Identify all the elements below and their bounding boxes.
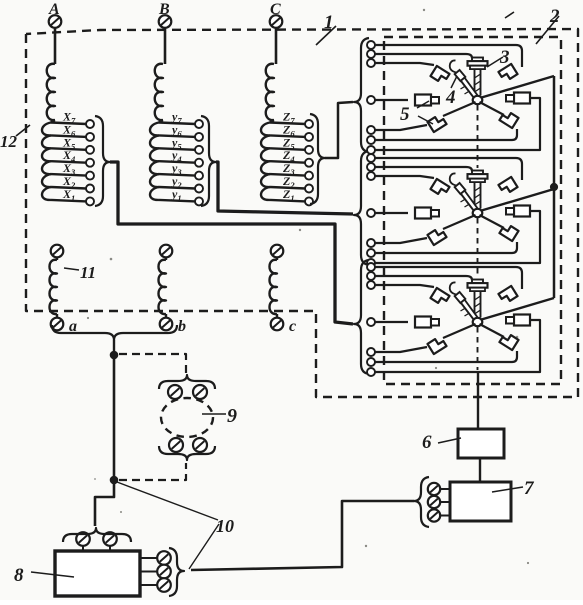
wire phase C taps to selector unit 1 bbox=[325, 102, 353, 158]
wire unit 1 tap 1 to upper-right contact bbox=[375, 45, 522, 67]
wire unit 2 tap 3 to upper-left contact bbox=[375, 176, 434, 178]
label 1 bbox=[324, 12, 334, 33]
terminal C screw symbol bbox=[270, 15, 283, 28]
svg-text:10: 10 bbox=[216, 516, 234, 536]
motor 9 dashed circle bbox=[161, 398, 213, 437]
dashed enclosure box 2 (tap selector compartment) outline bbox=[384, 37, 561, 384]
svg-text:2: 2 bbox=[549, 6, 560, 27]
wire unit 2 pivot to lower-left contact bbox=[443, 215, 476, 229]
neutral bus vertical bbox=[553, 76, 556, 298]
winding A plain section bbox=[47, 64, 55, 120]
junction node lower bbox=[110, 476, 118, 484]
terminal B screw symbol bbox=[159, 15, 172, 28]
fixed contact unit 1 upper-left bbox=[430, 66, 449, 84]
label 12 bbox=[0, 132, 18, 151]
wire unit 2 tap 5 to lower-left contact bbox=[375, 238, 427, 243]
terminal b label bbox=[178, 318, 186, 335]
winding B tap terminals bbox=[195, 120, 203, 205]
svg-text:11: 11 bbox=[80, 263, 96, 282]
label 1 leader slash bbox=[316, 26, 336, 45]
selector unit 3 pivot contact bbox=[473, 318, 483, 326]
connector brace under terminals a-b bbox=[52, 325, 177, 340]
fixed contact unit 3 lower-right bbox=[499, 332, 518, 350]
wire unit 3 tap 1 to upper-right contact bbox=[375, 267, 522, 289]
label 11 bbox=[80, 263, 96, 282]
dashed wire lower junction to motor bbox=[119, 463, 186, 480]
label 2 bbox=[549, 6, 560, 27]
wire unit 1 pivot to lower-right contact bbox=[480, 102, 505, 115]
wire unit 2 tap 2 to reversing switch stem bbox=[375, 167, 472, 171]
label 8 leader bbox=[31, 572, 74, 577]
fixed contact unit 3 upper-left bbox=[430, 288, 449, 306]
svg-text:1: 1 bbox=[324, 12, 334, 33]
dashed enclosure box 1 (transformer tank) outline bbox=[26, 29, 578, 397]
svg-text:7: 7 bbox=[524, 478, 535, 499]
selector unit 1 pivot contact bbox=[473, 96, 483, 104]
fixed contact unit 2 upper-right bbox=[498, 177, 517, 195]
winding C tapped section bbox=[261, 120, 306, 201]
brace below motor terminals bbox=[159, 446, 215, 460]
control box 7 bbox=[450, 482, 511, 521]
brace phase A tap group bbox=[95, 116, 110, 206]
brace above box 8 terminals bbox=[63, 528, 131, 542]
brace selector unit 1 input group bbox=[354, 38, 369, 152]
wire unit 3 pivot to lower-left contact bbox=[443, 324, 476, 338]
wire unit 3 tap 7 to mid-right contact bbox=[375, 320, 540, 372]
wire unit 2 tap 4 to mid-left contact bbox=[375, 212, 408, 214]
stray scan tick bbox=[505, 12, 514, 18]
fixed contact unit 1 lower-left bbox=[427, 114, 446, 132]
label 9 leader bbox=[202, 413, 226, 415]
wire unit 3 tap 5 to lower-left contact bbox=[375, 347, 427, 352]
wire unit 2 tap 6 to lower-right contact bbox=[375, 242, 517, 253]
wire unit 2 pivot to lower-right contact bbox=[480, 215, 505, 228]
fixed contact unit 3 mid-right bbox=[506, 315, 530, 326]
wire unit 1 pivot to neutral bus bbox=[482, 76, 555, 98]
label 5 leaders bbox=[417, 101, 433, 124]
selector unit 1 tap input contacts bbox=[367, 41, 375, 154]
junction node upper bbox=[110, 351, 118, 359]
label 10 leader to lower junction bbox=[117, 482, 218, 520]
label 4 leader bbox=[451, 76, 457, 88]
fixed contact unit 1 upper-right bbox=[498, 64, 517, 82]
label 7 leader bbox=[492, 487, 523, 492]
svg-text:c: c bbox=[289, 318, 296, 335]
label 5 bbox=[400, 104, 410, 125]
fixed contact unit 2 upper-left bbox=[430, 179, 449, 197]
fixed contact unit 1 mid-left bbox=[415, 95, 439, 106]
wire unit 3 pivot to lower-right contact bbox=[480, 324, 505, 337]
box 8 side terminals bbox=[140, 551, 171, 592]
brace box 7 terminals bbox=[414, 477, 429, 527]
label 3 leader bbox=[487, 57, 503, 67]
terminal a label bbox=[69, 318, 77, 335]
wire unit 2 tap 7 to mid-right contact bbox=[375, 211, 540, 263]
svg-text:9: 9 bbox=[227, 405, 237, 427]
dashed shaft centerline unit 3 output bbox=[477, 327, 479, 370]
winding B tap labels y7-y1 bbox=[170, 110, 182, 203]
wire phase A taps to selector unit 3 bbox=[110, 162, 353, 324]
label 6 leader bbox=[438, 438, 461, 443]
label 10 leader to connector brace bbox=[189, 524, 219, 569]
wire unit 2 pivot to neutral bus bbox=[482, 189, 555, 211]
winding C plain section bbox=[266, 64, 274, 120]
winding C tap terminals bbox=[305, 120, 313, 205]
terminal A label bbox=[48, 1, 60, 18]
brace phase C tap group bbox=[310, 114, 325, 204]
svg-text:5: 5 bbox=[400, 104, 410, 125]
dashed shaft centerline unit 1-2 bbox=[477, 105, 479, 168]
wire unit 1 tap 5 to lower-left contact bbox=[375, 125, 427, 130]
control winding 11 phase a bbox=[50, 245, 64, 331]
drive box 8 bbox=[55, 551, 140, 596]
terminal B label bbox=[158, 1, 170, 18]
wire unit 3 tap 4 to mid-left contact bbox=[375, 321, 408, 323]
label 4 bbox=[445, 87, 456, 108]
fixed contact unit 3 lower-left bbox=[427, 336, 446, 354]
label 2 leader slash bbox=[536, 16, 559, 44]
box 8 top terminals bbox=[76, 532, 117, 551]
selector unit 2 pivot contact bbox=[473, 209, 483, 217]
moving contact arm 4 unit 2 bbox=[450, 173, 478, 211]
wire terminal C to winding bbox=[275, 28, 278, 64]
box 7 terminals bbox=[428, 483, 450, 522]
terminal c label bbox=[289, 318, 296, 335]
fixed contact unit 3 upper-right bbox=[498, 286, 517, 304]
wire unit 3 tap 6 to lower-right contact bbox=[375, 351, 517, 362]
label 9 bbox=[227, 405, 237, 427]
wire a-b brace to junction bbox=[113, 340, 115, 354]
wire box 6 to box 7 bbox=[479, 458, 481, 482]
fixed contact unit 2 mid-left bbox=[415, 208, 439, 219]
scan specks bbox=[87, 9, 529, 564]
reversing switch 3 stem unit 3 bbox=[468, 280, 488, 318]
terminal A screw symbol bbox=[49, 15, 62, 28]
moving contact arm 4 unit 1 bbox=[450, 60, 478, 98]
reversing switch 3 stem unit 2 bbox=[468, 171, 488, 209]
svg-text:4: 4 bbox=[445, 87, 456, 108]
fixed contact unit 3 mid-left bbox=[415, 317, 439, 328]
wire unit 3 pivot to neutral bus bbox=[482, 298, 555, 320]
winding A tap terminals bbox=[86, 120, 94, 205]
label 3 bbox=[499, 47, 510, 68]
motor 9 upper terminals bbox=[168, 385, 207, 399]
dashed shaft centerline unit 2-3 bbox=[477, 218, 479, 277]
wire unit 3 tap 3 to upper-left contact bbox=[375, 285, 434, 287]
label 8 bbox=[14, 565, 24, 586]
moving contact arm 4 unit 3 bbox=[450, 282, 478, 320]
label 7 bbox=[524, 478, 535, 499]
reversing switch 3 stem unit 1 bbox=[468, 58, 488, 96]
wire terminal A to winding bbox=[54, 28, 57, 64]
svg-text:b: b bbox=[178, 318, 186, 335]
label 12 leader bbox=[16, 125, 30, 136]
fixed contact unit 2 lower-left bbox=[427, 227, 446, 245]
wire unit 3 tap 2 to reversing switch stem bbox=[375, 276, 472, 280]
wire unit 1 tap 4 to mid-left contact bbox=[375, 99, 408, 101]
selector unit 2 tap input contacts bbox=[367, 154, 375, 267]
control winding 11 phase b bbox=[159, 245, 173, 331]
winding B plain section bbox=[155, 64, 163, 120]
wire terminal B to winding bbox=[164, 28, 167, 64]
brace phase B tap group bbox=[201, 116, 216, 206]
fixed contact unit 1 lower-right bbox=[499, 110, 518, 128]
label 10 bbox=[216, 516, 234, 536]
winding C tap labels Z7-Z1 bbox=[282, 110, 295, 203]
svg-text:6: 6 bbox=[422, 432, 432, 453]
terminal C label bbox=[270, 1, 281, 18]
fixed contact unit 2 mid-right bbox=[506, 206, 530, 217]
brace selector unit 2 input group bbox=[354, 151, 369, 265]
wire unit 1 tap 3 to upper-left contact bbox=[375, 63, 434, 65]
wire unit 2 tap 1 to upper-right contact bbox=[375, 158, 522, 180]
svg-text:12: 12 bbox=[0, 132, 18, 151]
wire selector to box 6 bbox=[477, 371, 479, 429]
wire unit 1 tap 6 to lower-right contact bbox=[375, 129, 517, 140]
wire unit 1 pivot to lower-left contact bbox=[443, 102, 476, 116]
relay box 6 bbox=[458, 429, 504, 458]
control winding 11 phase c bbox=[270, 245, 284, 331]
brace above motor terminals bbox=[159, 375, 215, 389]
wire unit 1 tap 7 to mid-right contact bbox=[375, 98, 540, 150]
motor 9 lower terminals bbox=[169, 438, 207, 452]
label 11 leader bbox=[64, 268, 79, 270]
winding B tapped section bbox=[150, 120, 196, 201]
brace box 8 side terminals bbox=[169, 548, 184, 596]
svg-text:8: 8 bbox=[14, 565, 24, 586]
winding A tapped section bbox=[42, 120, 87, 201]
selector unit 3 tap input contacts bbox=[367, 263, 375, 376]
fixed contact unit 1 mid-right bbox=[506, 93, 530, 104]
junction node on neutral bus bbox=[550, 183, 557, 190]
dashed wire upper junction to motor bbox=[119, 354, 186, 378]
wire phase B taps to selector unit 2 bbox=[216, 162, 353, 214]
wire box 7 to drive box 8 bbox=[191, 501, 414, 570]
label 6 bbox=[422, 432, 432, 453]
wire junction to lower junction bbox=[113, 355, 116, 480]
svg-text:3: 3 bbox=[499, 47, 510, 68]
winding A tap labels X7-X1 bbox=[62, 110, 76, 203]
wire unit 1 tap 2 to reversing switch stem bbox=[375, 54, 472, 58]
brace selector unit 3 input group bbox=[354, 260, 369, 374]
fixed contact unit 2 lower-right bbox=[499, 223, 518, 241]
wire lower junction to drive unit 8 bbox=[95, 480, 114, 526]
